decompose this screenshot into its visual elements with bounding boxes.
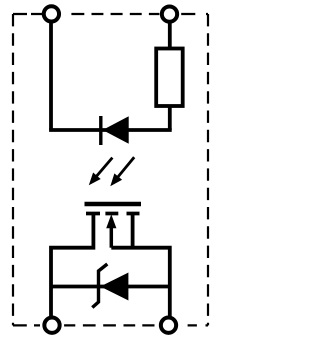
MOSFET Q1 left drain lead: [51, 214, 93, 319]
light emission arrow 1: [89, 158, 113, 186]
wire: LED horizontal rail: [49, 128, 172, 132]
MOSFET Q1 gate bar: [85, 202, 142, 207]
resistor R1: [156, 49, 183, 107]
zener diode D2 cathode bar with bent ends: [92, 264, 107, 308]
LED D1 triangle (anode, pointing left): [103, 116, 129, 143]
MOSFET Q1 right drain lead: [131, 214, 135, 248]
dashed package outline border: [13, 14, 208, 325]
wire: zener protection rail: [51, 285, 170, 289]
terminal pin 2 (top-right): [162, 6, 177, 21]
zener diode D2 triangle (pointing left): [100, 273, 128, 301]
MOSFET Q1 body arrow (pointing up at channel): [106, 214, 116, 248]
terminal pin 1 (top-left): [44, 6, 59, 21]
terminal pin 4 (bottom-right): [161, 318, 176, 333]
MOSFET Q1 channel tick right (drain 2): [127, 212, 140, 216]
MOSFET Q1 channel tick middle (body): [105, 212, 118, 216]
wire: input left vertical from pin 1 down to LED anode rail: [49, 20, 53, 130]
terminal pin 3 (bottom-left): [44, 318, 59, 333]
wire: resistor R1 bottom lead: [168, 106, 172, 130]
wire: body/source rail to right output column: [111, 248, 170, 318]
wire: input right vertical from pin 2 down to resistor R1: [168, 20, 172, 50]
LED D1 cathode bar: [99, 116, 102, 145]
MOSFET Q1 channel tick left (drain 1): [86, 212, 100, 216]
light emission arrow 2: [110, 157, 134, 186]
